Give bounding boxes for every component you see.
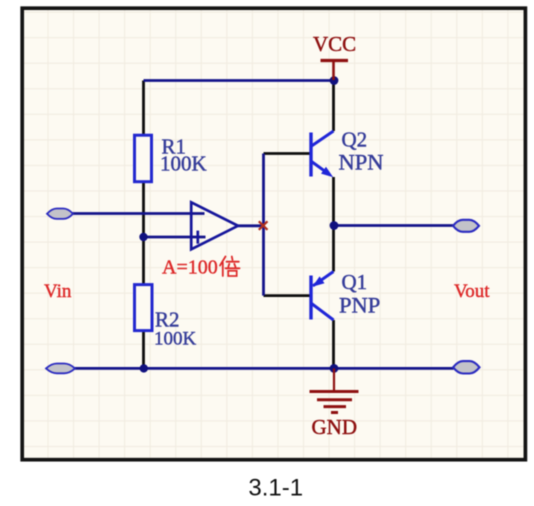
svg-text:Vin: Vin — [44, 281, 72, 302]
svg-text:3.1-1: 3.1-1 — [248, 475, 303, 502]
svg-text:GND: GND — [312, 415, 358, 439]
svg-text:100K: 100K — [154, 329, 197, 350]
svg-text:Q2: Q2 — [342, 128, 368, 152]
svg-text:Vout: Vout — [454, 281, 490, 302]
svg-text:100K: 100K — [160, 152, 207, 176]
svg-text:A=100: A=100 — [162, 257, 218, 279]
svg-text:Q1: Q1 — [342, 270, 368, 294]
svg-text:NPN: NPN — [339, 150, 384, 175]
svg-text:VCC: VCC — [313, 32, 356, 56]
svg-text:PNP: PNP — [339, 293, 380, 318]
